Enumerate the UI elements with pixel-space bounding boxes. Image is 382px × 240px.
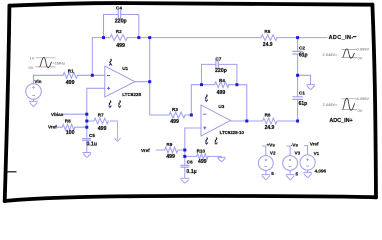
svg-text:0V: 0V: [358, 56, 363, 61]
svg-text:220p: 220p: [115, 18, 127, 24]
svg-text:0.1u: 0.1u: [87, 141, 97, 147]
svg-text:0.1µ: 0.1µ: [186, 169, 196, 175]
svg-text:R3: R3: [172, 107, 178, 112]
svg-text:ADC_IN+: ADC_IN+: [329, 118, 352, 124]
svg-text:24.9: 24.9: [265, 125, 275, 131]
svg-text:R4: R4: [219, 78, 225, 83]
svg-text:LTC6228-10: LTC6228-10: [220, 130, 245, 135]
svg-text:499: 499: [98, 126, 107, 132]
svg-text:1V: 1V: [30, 55, 35, 60]
svg-text:V2: V2: [270, 150, 276, 155]
svg-text:U3: U3: [218, 104, 224, 109]
svg-text:R1: R1: [68, 69, 74, 74]
svg-text:C5: C5: [89, 133, 95, 138]
svg-text:2.048V=: 2.048V=: [323, 102, 339, 107]
svg-text:61p: 61p: [299, 101, 308, 107]
svg-text:499: 499: [116, 43, 125, 49]
svg-text:-Vs: -Vs: [291, 142, 299, 147]
svg-text:Vbias: Vbias: [51, 112, 64, 117]
svg-text:C7: C7: [215, 56, 221, 61]
svg-text:4.096: 4.096: [315, 169, 327, 174]
svg-text:499: 499: [217, 90, 226, 96]
svg-text:499: 499: [166, 154, 175, 160]
svg-text:+Vs: +Vs: [267, 142, 276, 147]
svg-text:V1: V1: [314, 151, 320, 156]
svg-text:5: 5: [296, 171, 299, 176]
svg-text:C2: C2: [299, 45, 305, 50]
svg-text:R2: R2: [116, 29, 122, 34]
svg-text:100: 100: [66, 130, 75, 136]
svg-text:499: 499: [66, 80, 75, 86]
svg-text:R8: R8: [65, 119, 71, 124]
svg-text:4.096V: 4.096V: [357, 96, 370, 101]
svg-text:Vref: Vref: [141, 148, 150, 153]
svg-text:R5: R5: [264, 29, 270, 34]
svg-text:C1: C1: [299, 90, 305, 95]
svg-text:R9: R9: [166, 142, 172, 147]
svg-text:=1MHz: =1MHz: [52, 61, 65, 66]
svg-text:C4: C4: [116, 6, 122, 11]
svg-text:R7: R7: [98, 112, 104, 117]
svg-text:0V: 0V: [358, 108, 363, 113]
svg-text:2.048V=: 2.048V=: [323, 52, 339, 57]
svg-text:61p: 61p: [299, 52, 308, 58]
svg-text:499: 499: [198, 159, 207, 165]
svg-text:U1: U1: [122, 66, 128, 71]
svg-text:Vin: Vin: [34, 79, 41, 84]
svg-text:LTC6228: LTC6228: [122, 92, 141, 97]
svg-text:5: 5: [271, 171, 274, 176]
svg-text:C6: C6: [187, 159, 193, 164]
svg-text:0.999V: 0.999V: [357, 47, 370, 52]
svg-text:Vref: Vref: [48, 124, 57, 129]
svg-text:0V: 0V: [29, 65, 34, 70]
svg-text:24.9: 24.9: [263, 42, 273, 48]
svg-text:ADC_IN-: ADC_IN-: [329, 35, 354, 41]
svg-text:V3: V3: [295, 150, 301, 155]
svg-text:220p: 220p: [215, 68, 227, 74]
svg-text:Vref: Vref: [310, 141, 319, 146]
svg-text:R6: R6: [265, 112, 271, 117]
svg-text:R10: R10: [197, 148, 206, 153]
svg-text:499: 499: [170, 119, 179, 125]
